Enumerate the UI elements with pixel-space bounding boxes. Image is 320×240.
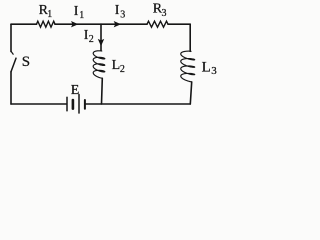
wire middle branch lower (101, 78, 104, 104)
wire top-left: corner to R1 (11, 23, 37, 25)
svg-text:3: 3 (162, 8, 167, 19)
inductor L3 (181, 51, 195, 82)
svg-text:3: 3 (211, 65, 217, 77)
battery E plate long 2 (78, 95, 80, 114)
battery E plate short thick (72, 100, 75, 109)
wire R3 to top-right corner (168, 23, 190, 25)
svg-text:1: 1 (79, 10, 84, 21)
wire bottom left to battery (11, 103, 66, 105)
switch S blade (11, 58, 16, 72)
svg-text:E: E (71, 83, 80, 98)
svg-text:I: I (115, 3, 120, 18)
wire bottom right (85, 103, 190, 105)
svg-text:L: L (112, 58, 121, 73)
svg-text:L: L (202, 60, 211, 76)
inductor L2 (93, 51, 105, 79)
wire left side upper (10, 24, 12, 51)
wire right side upper (189, 24, 191, 51)
wire left side lower (10, 72, 12, 104)
wire right side lower (190, 82, 191, 104)
wire middle branch upper (100, 24, 102, 50)
svg-text:1: 1 (47, 9, 52, 20)
resistor R1 (37, 21, 56, 27)
wire R1 to junction A (55, 23, 101, 25)
svg-text:3: 3 (120, 9, 125, 20)
svg-text:2: 2 (89, 34, 94, 45)
arrow I1 head (71, 21, 78, 27)
svg-text:S: S (22, 54, 30, 70)
svg-text:I: I (74, 4, 79, 19)
resistor R3 (147, 21, 168, 27)
battery E plate long 1 (66, 97, 68, 110)
wire junction A to R3 (101, 23, 147, 25)
svg-text:2: 2 (120, 64, 125, 75)
switch S top contact stub (11, 51, 13, 54)
arrow I2 head (98, 39, 104, 46)
battery E plate short 2 (84, 100, 86, 109)
arrow I3 head (114, 21, 121, 27)
